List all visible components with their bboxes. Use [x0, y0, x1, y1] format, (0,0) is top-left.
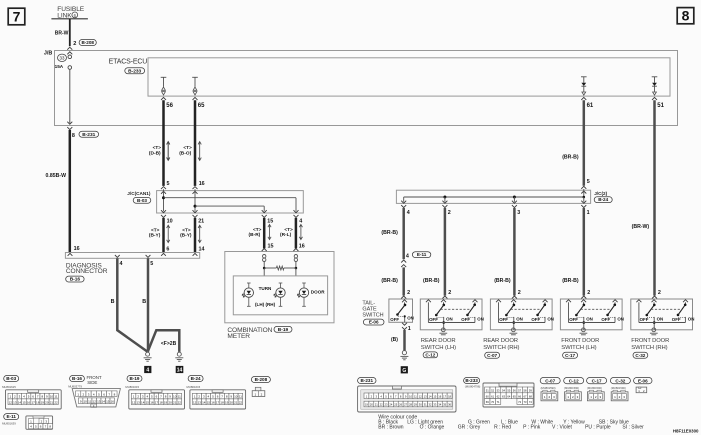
svg-text:SIDE: SIDE: [87, 380, 97, 385]
svg-text:2: 2: [448, 290, 451, 296]
svg-text:BR : Brown: BR : Brown: [378, 425, 404, 431]
svg-text:C-17: C-17: [565, 353, 575, 358]
svg-text:BR-W: BR-W: [55, 31, 69, 37]
svg-text:64: 64: [507, 394, 510, 398]
svg-text:B-03: B-03: [137, 198, 147, 203]
svg-text:27: 27: [404, 403, 407, 407]
svg-text:SWITCH (RH): SWITCH (RH): [631, 345, 667, 351]
svg-text:2: 2: [407, 290, 410, 296]
svg-text:5: 5: [167, 181, 170, 187]
svg-text:15: 15: [268, 244, 274, 250]
svg-text:C-12: C-12: [425, 352, 435, 357]
svg-text:4: 4: [146, 368, 149, 374]
svg-text:19: 19: [365, 403, 368, 407]
svg-text:28: 28: [409, 403, 412, 407]
svg-text:(BR-B): (BR-B): [562, 154, 579, 160]
svg-text:B: B: [142, 299, 146, 305]
svg-text:12: 12: [419, 394, 422, 398]
svg-text:14: 14: [102, 399, 106, 403]
svg-text:B-19: B-19: [278, 327, 289, 333]
svg-text:REAR DOOR: REAR DOOR: [483, 338, 518, 344]
svg-text:18: 18: [448, 394, 451, 398]
svg-text:2: 2: [73, 41, 76, 47]
svg-text:14: 14: [141, 400, 145, 404]
svg-text:J/C(CAN1): J/C(CAN1): [127, 191, 151, 196]
svg-text:21: 21: [198, 219, 204, 225]
svg-text:ON: ON: [516, 317, 523, 322]
svg-text:22: 22: [380, 403, 383, 407]
svg-text:15A: 15A: [55, 64, 64, 69]
svg-text:C-12: C-12: [569, 378, 579, 383]
svg-text:MU801639: MU801639: [2, 421, 16, 425]
svg-text:5: 5: [587, 179, 590, 185]
svg-text:56: 56: [166, 103, 173, 109]
svg-text:10: 10: [173, 395, 177, 399]
svg-text:<T>: <T>: [153, 145, 162, 150]
svg-text:(MU801590): (MU801590): [587, 386, 602, 390]
svg-text:(B-Y): (B-Y): [180, 233, 192, 239]
svg-text:18: 18: [36, 400, 40, 404]
svg-text:12: 12: [93, 399, 97, 403]
svg-text:67: 67: [524, 394, 527, 398]
svg-text:16: 16: [199, 181, 205, 187]
svg-text:70: 70: [491, 400, 494, 404]
svg-text:16: 16: [211, 400, 215, 404]
svg-text:REAR DOOR: REAR DOOR: [421, 338, 456, 344]
svg-text:<T>: <T>: [183, 145, 192, 150]
svg-text:2: 2: [518, 290, 521, 296]
svg-text:56: 56: [513, 389, 516, 393]
svg-text:G: G: [402, 368, 406, 374]
svg-text:OFF: OFF: [601, 317, 610, 322]
svg-text:ON: ON: [547, 317, 554, 322]
svg-text:OFF: OFF: [672, 317, 681, 322]
svg-text:53: 53: [497, 389, 500, 393]
svg-text:R : Red: R : Red: [494, 425, 511, 431]
svg-text:(D-B): (D-B): [149, 150, 161, 156]
svg-text:14: 14: [18, 400, 22, 404]
svg-text:13: 13: [424, 394, 427, 398]
svg-text:5: 5: [150, 261, 153, 267]
svg-text:15: 15: [207, 400, 211, 404]
svg-text:7: 7: [13, 8, 21, 24]
svg-text:13: 13: [136, 400, 140, 404]
svg-text:29: 29: [414, 403, 417, 407]
svg-text:(BR-B): (BR-B): [494, 278, 511, 284]
svg-text:C-17: C-17: [592, 378, 602, 383]
svg-text:METER: METER: [227, 333, 250, 340]
svg-text:30: 30: [419, 403, 422, 407]
svg-text:21: 21: [234, 400, 238, 404]
svg-text:SWITCH (RH): SWITCH (RH): [483, 345, 519, 351]
svg-text:ETACS-ECU: ETACS-ECU: [109, 58, 148, 65]
svg-text:B-231: B-231: [361, 378, 374, 383]
svg-text:51: 51: [486, 389, 489, 393]
svg-text:V : Violet: V : Violet: [552, 425, 573, 431]
svg-text:33: 33: [60, 56, 65, 61]
svg-text:(B-R): (B-R): [249, 232, 261, 238]
svg-text:4: 4: [407, 210, 410, 216]
svg-text:26: 26: [399, 403, 402, 407]
svg-text:10: 10: [234, 395, 238, 399]
svg-text:11: 11: [54, 395, 57, 399]
svg-text:66: 66: [518, 394, 521, 398]
svg-text:SWITCH (LH): SWITCH (LH): [561, 345, 596, 351]
svg-text:J/B: J/B: [44, 51, 52, 57]
svg-text:B-24: B-24: [598, 197, 608, 202]
svg-text:ON: ON: [586, 317, 593, 322]
svg-text:H8F11E0300: H8F11E0300: [673, 429, 699, 434]
svg-text:73: 73: [524, 400, 527, 404]
svg-text:16: 16: [27, 400, 31, 404]
svg-text:(MU801590): (MU801590): [611, 386, 626, 390]
svg-text:(BR-B): (BR-B): [423, 278, 440, 284]
svg-text:C-07: C-07: [545, 378, 555, 383]
svg-text:E-11: E-11: [6, 414, 16, 419]
svg-text:63: 63: [502, 394, 505, 398]
svg-text:SI : Silver: SI : Silver: [622, 425, 644, 431]
svg-text:59: 59: [529, 389, 532, 393]
svg-text:74: 74: [529, 400, 532, 404]
svg-text:68: 68: [529, 394, 532, 398]
svg-text:25: 25: [394, 403, 397, 407]
svg-text:B-233: B-233: [465, 378, 478, 383]
svg-text:17: 17: [31, 400, 35, 404]
svg-text:52: 52: [491, 389, 494, 393]
svg-text:E-06: E-06: [638, 378, 648, 383]
svg-text:TAIL-: TAIL-: [362, 300, 375, 306]
svg-text:20: 20: [168, 400, 172, 404]
svg-text:18: 18: [220, 400, 224, 404]
svg-text:22: 22: [239, 400, 243, 404]
svg-text:B-208: B-208: [81, 40, 94, 45]
svg-text:4: 4: [299, 219, 302, 225]
svg-text:17: 17: [155, 400, 159, 404]
svg-text:54: 54: [502, 389, 505, 393]
svg-text:17: 17: [216, 400, 220, 404]
svg-text:GR : Grey: GR : Grey: [458, 425, 481, 431]
svg-text:57: 57: [518, 389, 521, 393]
svg-text:15: 15: [267, 219, 273, 225]
svg-text:71: 71: [497, 400, 500, 404]
svg-text:OFF: OFF: [531, 317, 540, 322]
svg-text:13: 13: [97, 399, 101, 403]
svg-text:OFF: OFF: [390, 317, 399, 322]
svg-text:0.85B-W: 0.85B-W: [46, 173, 67, 179]
svg-text:C-07: C-07: [487, 353, 497, 358]
svg-text:14: 14: [177, 368, 183, 374]
svg-text:16: 16: [111, 399, 115, 403]
svg-text:2: 2: [448, 210, 451, 216]
svg-text:B-233: B-233: [128, 68, 141, 74]
svg-text:ON: ON: [617, 317, 624, 322]
svg-text:21: 21: [375, 403, 378, 407]
svg-text:(R-L): (R-L): [280, 232, 292, 238]
svg-text:(MU801590): (MU801590): [564, 386, 579, 390]
svg-text:C-32: C-32: [615, 378, 625, 383]
svg-text:DOOR: DOOR: [311, 290, 325, 295]
svg-text:6: 6: [166, 246, 169, 252]
svg-text:1: 1: [408, 326, 411, 332]
svg-text:16: 16: [299, 244, 305, 250]
svg-text:58: 58: [524, 389, 527, 393]
svg-text:TURN: TURN: [259, 286, 272, 291]
svg-text:51: 51: [657, 103, 664, 109]
svg-text:65: 65: [198, 103, 205, 109]
svg-text:72: 72: [518, 400, 521, 404]
svg-text:FRONT DOOR: FRONT DOOR: [631, 338, 669, 344]
svg-text:OFF: OFF: [461, 317, 470, 322]
svg-text:C-32: C-32: [635, 353, 645, 358]
svg-text:B-03: B-03: [6, 376, 16, 381]
svg-text:20: 20: [230, 400, 234, 404]
svg-text:SWITCH: SWITCH: [362, 313, 383, 319]
svg-text:B: B: [111, 299, 115, 305]
svg-text:19: 19: [225, 400, 229, 404]
svg-text:23: 23: [385, 403, 388, 407]
svg-text:MU801615: MU801615: [187, 385, 201, 389]
svg-text:34: 34: [438, 403, 441, 407]
svg-text:24: 24: [389, 403, 392, 407]
svg-text:MU803779: MU803779: [68, 384, 82, 388]
svg-text:4: 4: [406, 253, 409, 259]
svg-text:FRONT DOOR: FRONT DOOR: [561, 338, 599, 344]
svg-text:13: 13: [198, 400, 202, 404]
svg-text:ON: ON: [657, 317, 664, 322]
svg-text:11: 11: [178, 395, 181, 399]
svg-text:B-16: B-16: [72, 376, 82, 381]
svg-text:55: 55: [507, 389, 510, 393]
svg-text:31: 31: [424, 403, 427, 407]
svg-text:<F>2B: <F>2B: [161, 341, 177, 347]
svg-text:(BR-B): (BR-B): [381, 230, 398, 236]
svg-text:PU : Purple: PU : Purple: [585, 425, 611, 431]
svg-text:B-24: B-24: [191, 376, 201, 381]
svg-text:60: 60: [486, 394, 489, 398]
svg-text:65: 65: [513, 394, 516, 398]
svg-text:11: 11: [239, 395, 242, 399]
svg-text:19: 19: [41, 400, 45, 404]
svg-text:(BR-W): (BR-W): [632, 224, 650, 230]
svg-text:33: 33: [433, 403, 436, 407]
svg-text:18: 18: [159, 400, 163, 404]
svg-text:ON: ON: [477, 317, 484, 322]
svg-text:14: 14: [202, 400, 206, 404]
svg-text:10: 10: [167, 219, 173, 225]
svg-text:B-208: B-208: [255, 377, 268, 382]
svg-text:19: 19: [164, 400, 168, 404]
svg-text:12: 12: [132, 400, 136, 404]
svg-text:17: 17: [443, 394, 446, 398]
svg-text:10: 10: [84, 399, 88, 403]
svg-text:21: 21: [173, 400, 177, 404]
svg-text:(LH) (RH): (LH) (RH): [255, 302, 276, 307]
svg-text:ON: ON: [446, 317, 453, 322]
svg-text:16: 16: [438, 394, 441, 398]
svg-text:ON: ON: [688, 317, 695, 322]
svg-text:62: 62: [497, 394, 500, 398]
svg-text:15: 15: [22, 400, 26, 404]
svg-text:(BR-B): (BR-B): [562, 278, 579, 284]
svg-text:15: 15: [433, 394, 436, 398]
svg-text:(MU804796): (MU804796): [465, 384, 481, 388]
svg-text:22: 22: [178, 400, 182, 404]
svg-text:4: 4: [120, 261, 123, 267]
svg-text:B-19: B-19: [130, 376, 140, 381]
svg-text:13: 13: [13, 400, 17, 404]
svg-text:16: 16: [150, 400, 154, 404]
svg-text:15: 15: [146, 400, 150, 404]
svg-text:<T>: <T>: [151, 227, 160, 232]
svg-text:<T>: <T>: [182, 227, 191, 232]
svg-text:MU801615: MU801615: [125, 385, 139, 389]
svg-text:8: 8: [72, 133, 75, 139]
svg-text:CONNECTOR: CONNECTOR: [66, 268, 108, 275]
svg-text:(MU801590): (MU801590): [541, 386, 556, 390]
svg-text:32: 32: [429, 403, 432, 407]
svg-text:B-231: B-231: [82, 132, 95, 138]
svg-text:11: 11: [88, 399, 91, 403]
svg-text:12: 12: [193, 400, 197, 404]
svg-text:11: 11: [414, 394, 417, 398]
svg-text:20: 20: [45, 400, 49, 404]
svg-text:(B-Y): (B-Y): [149, 233, 161, 239]
svg-text:35: 35: [443, 403, 446, 407]
svg-text:12: 12: [9, 400, 13, 404]
svg-text:61: 61: [491, 394, 494, 398]
svg-text:P : Pink: P : Pink: [523, 425, 541, 431]
svg-text:<T>: <T>: [284, 227, 293, 232]
svg-text:8: 8: [682, 8, 690, 24]
svg-text:E-11: E-11: [417, 252, 427, 257]
svg-text:2: 2: [658, 290, 661, 296]
svg-text:14: 14: [199, 246, 205, 252]
svg-text:(B): (B): [391, 337, 398, 343]
svg-text:10: 10: [50, 395, 54, 399]
svg-text:B-16: B-16: [70, 277, 81, 283]
svg-text:21: 21: [50, 400, 54, 404]
svg-text:15: 15: [106, 399, 110, 403]
svg-text:36: 36: [448, 403, 451, 407]
svg-text:69: 69: [486, 400, 489, 404]
svg-text:O : Orange: O : Orange: [420, 425, 445, 431]
svg-text:3: 3: [517, 210, 520, 216]
svg-text:14: 14: [429, 394, 432, 398]
svg-text:20: 20: [370, 403, 373, 407]
svg-text:<T>: <T>: [253, 227, 262, 232]
svg-text:(BR-B): (BR-B): [381, 278, 398, 284]
svg-text:SWITCH (LH): SWITCH (LH): [421, 345, 456, 351]
svg-text:61: 61: [587, 103, 594, 109]
svg-text:MU801615: MU801615: [2, 385, 16, 389]
svg-text:1: 1: [587, 210, 590, 216]
svg-text:10: 10: [409, 394, 412, 398]
svg-text:E-06: E-06: [369, 320, 379, 325]
svg-text:22: 22: [54, 400, 58, 404]
svg-text:2: 2: [587, 290, 590, 296]
svg-text:J/C(2): J/C(2): [594, 191, 607, 196]
svg-text:16: 16: [74, 246, 80, 252]
svg-text:(B-O): (B-O): [179, 150, 191, 156]
svg-text:GATE: GATE: [362, 306, 377, 312]
svg-text:ON: ON: [407, 316, 414, 321]
